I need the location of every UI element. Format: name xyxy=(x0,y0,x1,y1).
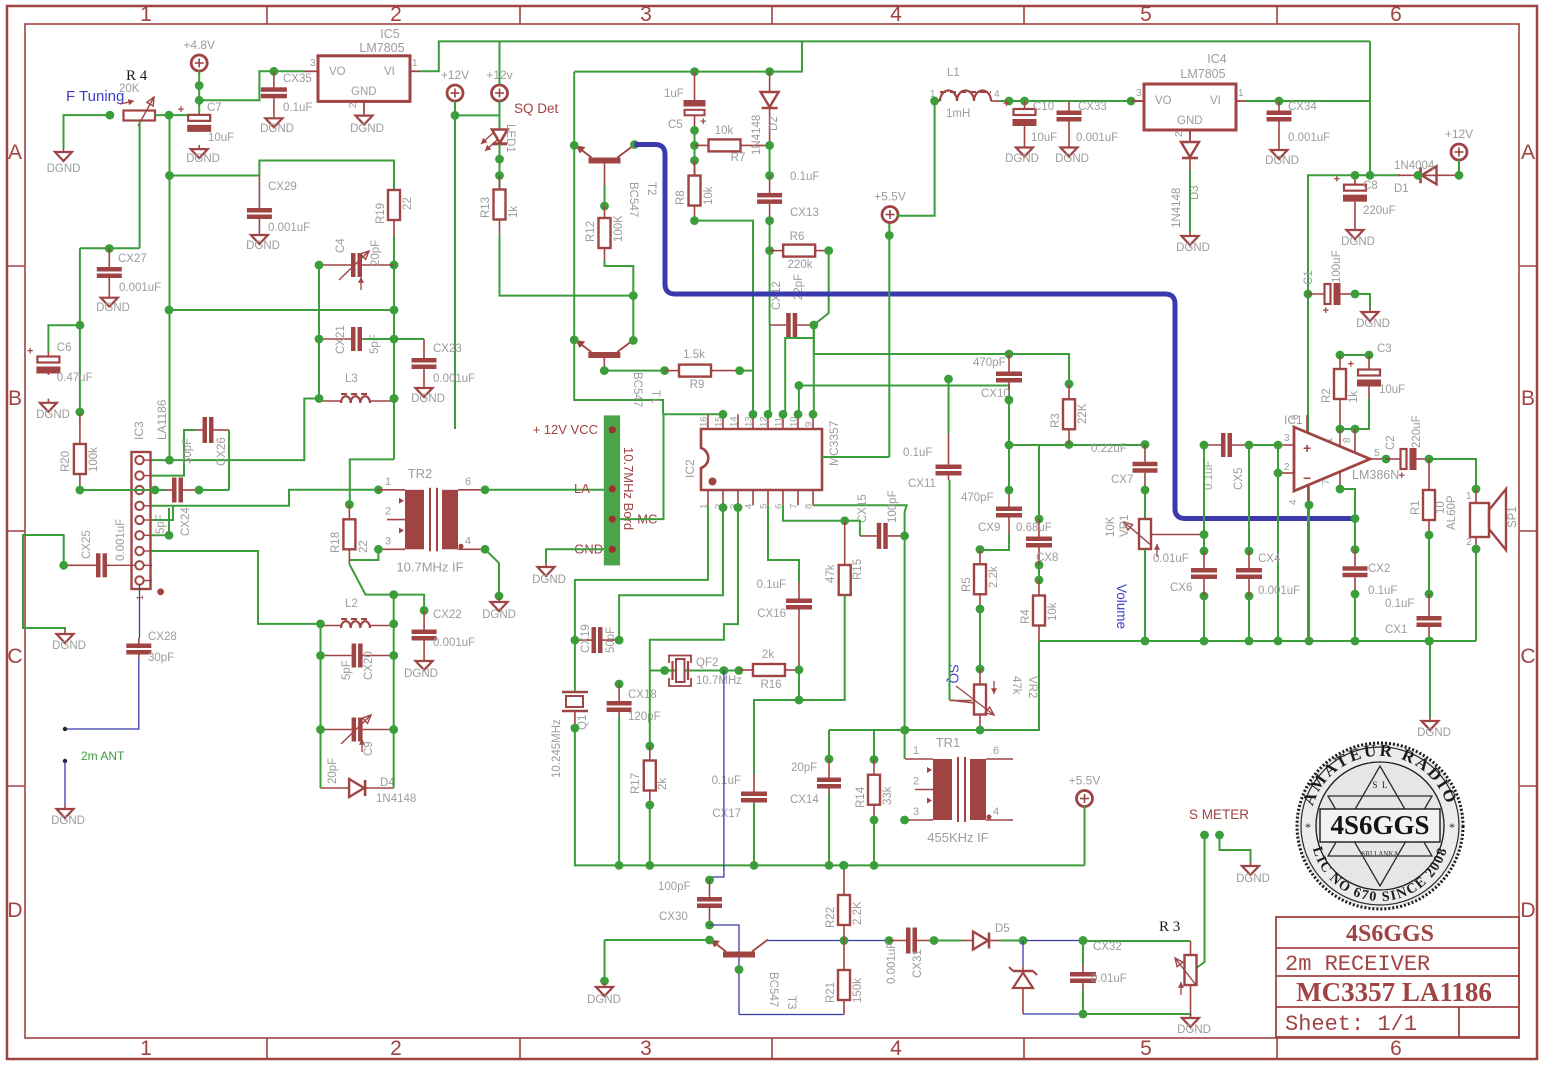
supply +5.5V top xyxy=(882,207,898,223)
svg-text:T2: T2 xyxy=(645,182,657,195)
svg-text:1uF: 1uF xyxy=(664,88,684,100)
svg-text:VO: VO xyxy=(1155,95,1172,107)
crystal Q1 10.245MHz xyxy=(574,640,576,692)
svg-text:LA: LA xyxy=(574,481,590,496)
resistor R22 2.2K xyxy=(843,865,845,895)
svg-text:L1: L1 xyxy=(947,67,960,79)
svg-text:R16: R16 xyxy=(760,679,781,691)
board 10.7MHz Bord xyxy=(604,415,620,565)
wire board MC to IC2 xyxy=(620,414,723,519)
svg-text:2m RECEIVER: 2m RECEIVER xyxy=(1285,952,1430,977)
svg-text:1N4148: 1N4148 xyxy=(376,793,416,805)
wire squelch row 730 xyxy=(829,729,1039,731)
svg-text:A: A xyxy=(1521,141,1535,164)
svg-text:C4: C4 xyxy=(335,238,347,253)
capacitor CX28 30pF xyxy=(138,638,140,644)
svg-text:DGND: DGND xyxy=(1177,1024,1211,1036)
svg-text:3: 3 xyxy=(1136,88,1142,99)
wire LED1 to R13 xyxy=(499,144,501,190)
wire CX25 left to ground loop xyxy=(23,535,65,630)
resistor R2 1k xyxy=(1339,355,1341,369)
svg-text:IC4: IC4 xyxy=(1207,52,1227,66)
ground DGND CX27 xyxy=(108,294,110,298)
svg-text:6: 6 xyxy=(1390,3,1402,26)
svg-text:4: 4 xyxy=(744,504,755,509)
wire zener to bottom row blue xyxy=(1023,1013,1083,1015)
svg-text:5pF: 5pF xyxy=(369,334,381,354)
resistor R18 22 xyxy=(348,505,350,520)
capacitor CX13 0.1uF xyxy=(769,176,771,193)
svg-text:CX26: CX26 xyxy=(216,437,228,466)
svg-text:DGND: DGND xyxy=(411,393,445,405)
IC1 pin7 stub xyxy=(1339,472,1341,489)
ground DGND IC5 xyxy=(363,112,365,116)
svg-text:470pF: 470pF xyxy=(961,492,994,504)
wire CX11 top rail xyxy=(813,325,815,338)
svg-text:C8: C8 xyxy=(1363,180,1378,192)
svg-text:B: B xyxy=(1521,387,1535,410)
svg-text:VR2: VR2 xyxy=(1026,676,1038,698)
wire pin12 column xyxy=(769,325,771,414)
svg-text:10.7MHz: 10.7MHz xyxy=(696,675,742,687)
svg-text:D: D xyxy=(1520,899,1535,922)
svg-text:DGND: DGND xyxy=(1417,727,1451,739)
svg-text:SP1: SP1 xyxy=(1507,506,1519,528)
wire CX28 to antenna xyxy=(65,658,139,729)
svg-text:470pF: 470pF xyxy=(973,357,1006,369)
svg-text:C1: C1 xyxy=(1303,270,1315,285)
svg-text:DGND: DGND xyxy=(1265,155,1299,167)
svg-text:CX24: CX24 xyxy=(180,507,192,536)
transistor T1 BC547 xyxy=(588,352,620,358)
svg-text:5: 5 xyxy=(1140,3,1152,26)
wire to CX22 xyxy=(394,595,424,611)
resistor R13 1k xyxy=(499,176,501,190)
ground bus bottom right xyxy=(1039,640,1476,642)
wire +12V to LED node xyxy=(455,101,500,116)
svg-text:CX19: CX19 xyxy=(580,624,592,653)
svg-text:0.47uF: 0.47uF xyxy=(57,372,93,384)
transistor T3 BC547 xyxy=(723,952,755,958)
svg-text:CX5: CX5 xyxy=(1233,468,1245,490)
wire TR2 pin6 to board LA xyxy=(481,485,490,494)
wire pin5 to CX16 top xyxy=(768,505,799,582)
wire pin10 to CX11 CX9 xyxy=(798,386,800,415)
op-amp IC1 LM386N xyxy=(1294,427,1370,491)
svg-text:1N4004: 1N4004 xyxy=(1394,160,1435,172)
svg-text:DGND: DGND xyxy=(47,163,81,175)
capacitor CX6 0.01uF xyxy=(1203,551,1205,568)
svg-text:+5.5V: +5.5V xyxy=(874,190,906,204)
svg-text:QF2: QF2 xyxy=(696,657,718,669)
diode D4 1N4148 xyxy=(321,787,350,789)
svg-text:2: 2 xyxy=(390,1037,402,1060)
svg-text:R5: R5 xyxy=(961,577,973,592)
svg-text:20pF: 20pF xyxy=(327,758,339,784)
resistor R20 100k xyxy=(79,414,81,444)
svg-text:CX33: CX33 xyxy=(1078,101,1107,113)
wire CX10 top xyxy=(814,353,1009,355)
svg-text:1k: 1k xyxy=(508,206,520,218)
wire pin2 down to bus xyxy=(1277,473,1279,641)
svg-text:R4: R4 xyxy=(1020,609,1032,624)
potentiometer VR1 10K volume xyxy=(1144,518,1146,520)
ground DGND board xyxy=(545,563,547,567)
svg-text:CX29: CX29 xyxy=(268,181,297,193)
svg-text:16: 16 xyxy=(699,416,710,427)
svg-text:C: C xyxy=(7,645,22,668)
wire Q1 to bus xyxy=(575,728,1085,865)
svg-text:100pF: 100pF xyxy=(887,490,899,523)
wire IC3 pin2 to CX26 xyxy=(152,430,196,476)
svg-text:47k: 47k xyxy=(825,564,837,583)
potentiometer R3 xyxy=(1190,941,1192,955)
capacitor C10 10uF xyxy=(1024,101,1026,109)
ground DGND R4 xyxy=(63,148,65,152)
wire +5.5V to bus xyxy=(1084,806,1086,865)
svg-text:Volume: Volume xyxy=(1114,584,1129,629)
svg-text:R 4: R 4 xyxy=(126,68,148,84)
svg-text:6: 6 xyxy=(1290,414,1301,420)
svg-text:VR1: VR1 xyxy=(1119,515,1131,537)
svg-text:+ 12V VCC: + 12V VCC xyxy=(533,422,598,437)
svg-text:2: 2 xyxy=(1174,131,1185,137)
svg-text:SRI LANKA: SRI LANKA xyxy=(1361,850,1398,858)
svg-text:2k: 2k xyxy=(762,649,774,661)
wire top mid rail xyxy=(574,41,802,71)
capacitor C6 0.47uF xyxy=(47,352,49,357)
capacitor CX10 470pF xyxy=(1008,354,1010,372)
svg-text:CX16: CX16 xyxy=(757,608,786,620)
svg-text:CX6: CX6 xyxy=(1170,582,1192,594)
wire pin7 to CX2 column xyxy=(1340,489,1355,550)
transformer TR2 10.7MHz IF xyxy=(405,490,424,550)
wire L3 left to IC3 pin1 net xyxy=(150,399,319,461)
wire R17 node xyxy=(649,671,651,747)
capacitor CX17 0.1uF xyxy=(753,774,755,792)
svg-text:2: 2 xyxy=(1466,537,1472,548)
ground DGND C10 xyxy=(1024,144,1026,148)
capacitor CX2 0.1uF xyxy=(1354,550,1356,567)
wire +12V rail down xyxy=(454,115,456,429)
svg-text:CX22: CX22 xyxy=(433,609,462,621)
svg-text:R9: R9 xyxy=(690,379,705,391)
capacitor CX35 0.1uF xyxy=(273,71,275,87)
svg-text:0.1uF: 0.1uF xyxy=(757,579,786,591)
wire +12v to LED1 xyxy=(499,101,501,129)
svg-text:1N4148: 1N4148 xyxy=(751,115,763,155)
capacitor CX11 0.1uF xyxy=(948,379,950,434)
IC1 pin4 stub down xyxy=(1308,486,1310,505)
svg-text:10uF: 10uF xyxy=(208,132,234,144)
svg-text:4S6GGS: 4S6GGS xyxy=(1330,810,1429,840)
wire R2 C3 tops joined xyxy=(1340,354,1369,356)
potentiometer R4 20K xyxy=(124,111,156,121)
svg-text:9: 9 xyxy=(804,422,815,427)
wire CX6 node xyxy=(1203,445,1205,551)
svg-text:150k: 150k xyxy=(852,978,864,1003)
capacitor CX20 5pF xyxy=(321,655,352,657)
wire to D1 xyxy=(1370,174,1400,176)
wire CX21 to CX23 xyxy=(364,338,424,340)
ground DGND D3 xyxy=(1189,232,1191,236)
ground DGND CX22 xyxy=(423,657,425,661)
svg-text:*: * xyxy=(1449,820,1455,834)
IC1 pin6 stub up xyxy=(1306,415,1308,433)
wire top rail down right side xyxy=(1369,41,1371,175)
svg-text:BC547: BC547 xyxy=(627,182,639,217)
resistor R9 1.5k xyxy=(665,370,679,372)
svg-text:2: 2 xyxy=(348,102,359,108)
wire C8 node to C1 xyxy=(1308,175,1370,641)
node S meter signal xyxy=(1200,831,1209,840)
filter QF2 10.7MHz xyxy=(665,670,739,672)
node T1 collector xyxy=(629,336,638,345)
wire wiper node to CX27 xyxy=(80,247,140,249)
svg-text:0.001uF: 0.001uF xyxy=(433,637,475,649)
wire R3 bottom xyxy=(1190,1014,1192,1016)
svg-text:10K: 10K xyxy=(1105,516,1117,537)
wire pin3 node down xyxy=(1277,445,1279,473)
capacitor CX33 0.001uF xyxy=(1068,101,1070,111)
wire CX9 bottom to R5 xyxy=(980,534,1009,550)
inductor L1 1mH xyxy=(940,91,991,101)
wire CX17 to bus xyxy=(753,803,755,865)
svg-text:1mH: 1mH xyxy=(946,108,970,120)
svg-text:0.001uF: 0.001uF xyxy=(433,373,475,385)
svg-text:2k: 2k xyxy=(657,778,669,790)
svg-text:R 3: R 3 xyxy=(1159,919,1180,935)
capacitor CX29 0.001uF xyxy=(258,176,260,209)
variable capacitor C4 20pF xyxy=(319,264,351,266)
svg-text:T1: T1 xyxy=(649,390,661,403)
wire antenna to ground xyxy=(64,761,66,805)
svg-text:DGND: DGND xyxy=(1356,318,1390,330)
ground DGND CX23 xyxy=(423,384,425,388)
svg-text:0.001uF: 0.001uF xyxy=(115,519,127,561)
svg-text:3: 3 xyxy=(310,58,316,69)
svg-text:10k: 10k xyxy=(1047,602,1059,621)
voltage regulator IC4 LM7805 xyxy=(1144,84,1236,130)
svg-text:CX21: CX21 xyxy=(335,325,347,354)
wire to C6 xyxy=(48,325,80,352)
svg-text:CX1: CX1 xyxy=(1385,624,1407,636)
svg-text:+: + xyxy=(700,116,706,128)
potentiometer VR2 47k squelch xyxy=(979,669,981,685)
wire CX30 to T3 base blue xyxy=(710,925,740,1015)
wire IC3 pin6 xyxy=(152,508,169,535)
wire VR2 wiper up to CX11 xyxy=(950,700,975,703)
svg-text:33k: 33k xyxy=(882,786,894,805)
svg-text:120pF: 120pF xyxy=(628,711,661,723)
svg-text:2: 2 xyxy=(390,3,402,26)
svg-text:0.1uF: 0.1uF xyxy=(283,102,312,114)
svg-text:+12V: +12V xyxy=(1445,127,1473,141)
svg-text:+: + xyxy=(1323,305,1329,317)
svg-text:3: 3 xyxy=(640,3,652,26)
svg-text:DGND: DGND xyxy=(1005,153,1039,165)
title block xyxy=(1276,917,1519,1037)
svg-text:R12: R12 xyxy=(585,221,597,242)
svg-text:CX11: CX11 xyxy=(908,478,936,490)
capacitor CX25 0.001uF xyxy=(64,564,96,566)
svg-text:455KHz IF: 455KHz IF xyxy=(927,830,988,845)
wire C2 to speaker xyxy=(1429,459,1476,489)
svg-text:0.22uF: 0.22uF xyxy=(1091,443,1127,455)
svg-text:+: + xyxy=(1003,98,1009,110)
svg-text:R18: R18 xyxy=(330,532,342,553)
svg-text:3: 3 xyxy=(385,535,391,547)
svg-text:BC547: BC547 xyxy=(631,372,643,407)
ground DGND CX25 xyxy=(64,630,66,634)
wire S meter to R3 wiper xyxy=(1195,835,1205,969)
wire R19 column to R18 xyxy=(350,459,394,504)
voltage regulator IC5 LM7805 xyxy=(318,56,410,102)
wire IC3 pin4 to TR2 pin1 xyxy=(152,490,378,506)
svg-text:0.1uF: 0.1uF xyxy=(903,447,932,459)
svg-text:CX28: CX28 xyxy=(148,631,177,643)
capacitor C7 10uF xyxy=(198,113,200,115)
svg-text:22: 22 xyxy=(402,197,414,210)
capacitor C8 220uF xyxy=(1354,175,1356,184)
svg-text:4S6GGS: 4S6GGS xyxy=(1346,921,1434,947)
svg-text:0.001uF: 0.001uF xyxy=(1258,585,1300,597)
svg-text:CX30: CX30 xyxy=(659,911,688,923)
capacitor CX21 5pF xyxy=(319,338,351,340)
transistor T2 BC547 xyxy=(589,158,621,164)
wire CX29 node xyxy=(170,175,260,177)
wire +5.5V vertical xyxy=(888,221,890,457)
wire tuning line from left xyxy=(169,309,394,311)
resistor R14 33k xyxy=(873,760,875,775)
wire CX7 to VR1 xyxy=(1144,490,1146,519)
svg-text:IC3: IC3 xyxy=(132,421,146,440)
svg-text:100K: 100K xyxy=(613,215,625,242)
svg-text:D: D xyxy=(7,899,22,922)
svg-text:CX31: CX31 xyxy=(912,949,924,978)
wire pin13 column down xyxy=(752,371,754,415)
svg-text:2: 2 xyxy=(913,776,919,788)
svg-text:CX25: CX25 xyxy=(81,530,93,559)
wire top rail to +12v xyxy=(499,41,501,85)
wire CX14 top xyxy=(828,730,830,759)
svg-text:4: 4 xyxy=(890,1037,902,1060)
wire CX26 right down xyxy=(228,430,230,490)
svg-text:BC547: BC547 xyxy=(767,972,779,1007)
svg-text:IC2: IC2 xyxy=(683,459,697,478)
svg-text:A: A xyxy=(8,141,22,164)
capacitor CX12 22pF xyxy=(770,324,787,326)
svg-text:CX17: CX17 xyxy=(712,808,741,820)
svg-text:14: 14 xyxy=(729,416,740,427)
wire IC3 pin9 antenna blue xyxy=(139,585,141,638)
IC2 top pins xyxy=(707,414,709,429)
svg-text:10k: 10k xyxy=(715,125,734,137)
svg-text:4: 4 xyxy=(890,3,902,26)
wire C1 right to ground xyxy=(1355,294,1370,308)
capacitor CX14 20pF xyxy=(828,759,830,778)
wire IC3 pin1 up to tuning node xyxy=(169,115,171,460)
resistor R19 22 xyxy=(393,188,395,191)
svg-text:F Tuning: F Tuning xyxy=(66,88,124,105)
wire speaker pin2 down xyxy=(1472,545,1481,554)
svg-text:MC3357 LA1186: MC3357 LA1186 xyxy=(1296,977,1492,1007)
amateur radio stamp logo xyxy=(1297,741,1463,909)
svg-text:R1: R1 xyxy=(1410,500,1422,515)
node bus R22 xyxy=(839,861,848,870)
wire bus to DGND xyxy=(1429,641,1431,717)
svg-text:C5: C5 xyxy=(668,119,683,131)
svg-text:SQ: SQ xyxy=(946,664,961,684)
svg-text:CX32: CX32 xyxy=(1093,941,1122,953)
supply +12V xyxy=(447,85,463,101)
svg-text:6: 6 xyxy=(1390,1037,1402,1060)
ground DGND CX34 xyxy=(1278,146,1280,150)
wire x574 rail xyxy=(574,72,663,415)
svg-text:0.68uF: 0.68uF xyxy=(1016,522,1052,534)
svg-text:DGND: DGND xyxy=(52,640,86,652)
wire T2 emitter xyxy=(570,141,579,150)
svg-text:CX7: CX7 xyxy=(1111,474,1133,486)
wire CX12 right to pins xyxy=(813,325,815,414)
wire CX15 right down to TR1 xyxy=(904,536,906,730)
resistor R12 100K xyxy=(604,206,606,218)
svg-text:CX20: CX20 xyxy=(363,651,375,680)
wire R4 column xyxy=(1038,445,1040,519)
blue wire QF2 to CX30 xyxy=(710,671,724,881)
svg-text:+12V: +12V xyxy=(441,68,469,82)
wire collector row blue xyxy=(844,940,889,942)
resistor R3 22K xyxy=(1068,384,1070,399)
svg-text:5: 5 xyxy=(1140,1037,1152,1060)
capacitor CX1 0.1uF xyxy=(1428,594,1430,616)
wire R14 top xyxy=(873,730,875,760)
wire board GND to ground xyxy=(546,549,604,563)
svg-text:5pF: 5pF xyxy=(341,660,353,680)
svg-text:DGND: DGND xyxy=(1236,873,1270,885)
wire R9 to pin13 column xyxy=(740,370,753,372)
svg-text:R21: R21 xyxy=(825,982,837,1003)
ground DGND antenna xyxy=(64,805,66,809)
svg-text:LM386N: LM386N xyxy=(1352,468,1399,482)
frame column ticks bottom xyxy=(266,1038,268,1059)
capacitor CX24 5pF xyxy=(166,489,172,491)
svg-text:6: 6 xyxy=(993,745,999,757)
svg-text:C2: C2 xyxy=(1385,435,1397,450)
svg-text:220k: 220k xyxy=(788,259,813,271)
svg-text:+: + xyxy=(1399,470,1405,482)
capacitor CX4 0.001uF xyxy=(1248,445,1250,551)
svg-text:+4.8V: +4.8V xyxy=(183,38,215,52)
capacitor CX32 0.01uF xyxy=(1079,936,1088,945)
svg-text:4: 4 xyxy=(994,89,1000,100)
svg-text:3: 3 xyxy=(1284,433,1290,444)
wire T3 collector blue xyxy=(768,940,844,942)
diode D3 1N4148 xyxy=(1189,130,1191,142)
svg-text:10uF: 10uF xyxy=(1379,384,1405,396)
svg-text:2.2k: 2.2k xyxy=(988,566,1000,588)
ground DGND C1 xyxy=(1369,308,1371,312)
svg-text:C3: C3 xyxy=(1377,343,1392,355)
LED LED1 xyxy=(492,130,508,144)
svg-text:2: 2 xyxy=(1284,462,1290,473)
wire pin1 to crystal xyxy=(575,505,708,640)
svg-text:GND: GND xyxy=(351,86,377,98)
wire pin2 to CX19 right xyxy=(619,505,723,640)
resistor R5 2.2k xyxy=(979,550,981,565)
svg-text:3: 3 xyxy=(913,806,919,818)
wire D5 node down to zener xyxy=(1022,941,1024,967)
